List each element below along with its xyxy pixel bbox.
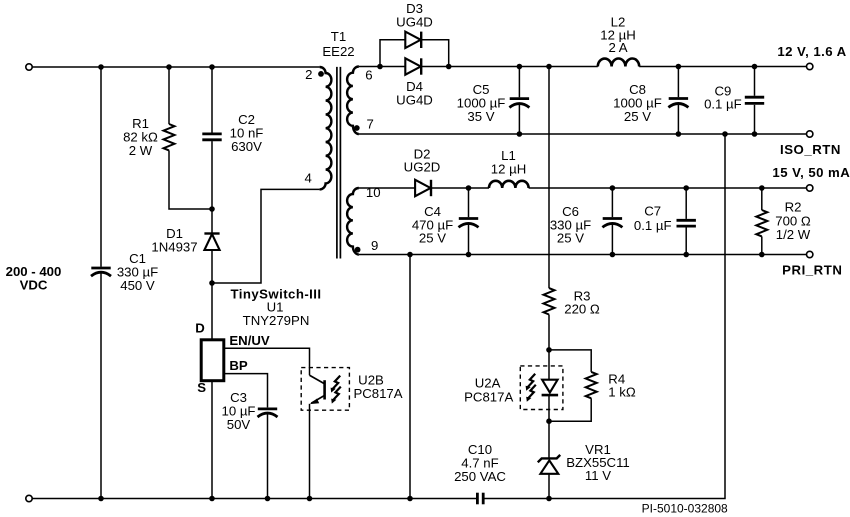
svg-text:EE22: EE22: [322, 44, 354, 59]
wire D2 to L1: [431, 187, 489, 189]
svg-text:250 VAC: 250 VAC: [454, 469, 506, 484]
label U1 pin D: [195, 321, 205, 336]
svg-text:1N4937: 1N4937: [151, 240, 197, 255]
label 15V output: [772, 165, 850, 180]
capacitor C8: [668, 99, 688, 108]
wire U1 BP to C3: [224, 374, 268, 408]
label pin 2: [305, 67, 312, 82]
label L1 value: [491, 148, 526, 177]
svg-text:ISO_RTN: ISO_RTN: [780, 142, 841, 157]
svg-text:R2: R2: [785, 200, 802, 215]
wire C4 top: [468, 188, 470, 217]
svg-text:25 V: 25 V: [419, 231, 446, 246]
svg-text:25 V: 25 V: [557, 231, 584, 246]
terminal 15V output: [807, 185, 813, 191]
svg-text:1 kΩ: 1 kΩ: [608, 385, 636, 400]
wire C5 bottom: [518, 104, 520, 134]
node junction C6 top: [610, 185, 616, 191]
svg-text:T1: T1: [331, 29, 346, 44]
svg-text:PC817A: PC817A: [464, 390, 513, 405]
capacitor C4: [459, 219, 479, 228]
wire D1 anode down to U1 drain node: [211, 251, 213, 340]
wire PRI_RTN rail: [359, 254, 807, 256]
node junction LED/R4/VR1: [546, 418, 552, 424]
capacitor C9: [745, 97, 764, 103]
capacitor C2: [202, 134, 221, 140]
wire R4 branch: [549, 350, 591, 372]
node junction pin9 drop: [407, 252, 413, 258]
svg-text:PI-5010-032808: PI-5010-032808: [642, 502, 728, 516]
wire ISO_RTN rail: [359, 133, 807, 135]
svg-text:15 V, 50 mA: 15 V, 50 mA: [772, 165, 850, 180]
node junction C5 bottom: [517, 131, 523, 137]
label ISO_RTN: [780, 142, 841, 157]
LED U2A: [542, 380, 559, 395]
svg-text:12 V, 1.6 A: 12 V, 1.6 A: [777, 44, 846, 59]
label D1 value: [151, 226, 197, 255]
transformer secondary winding (pins 6-7): [347, 67, 359, 135]
label pin 10: [366, 185, 381, 200]
transformer pin 7 phase dot: [354, 125, 360, 131]
svg-text:C7: C7: [644, 204, 661, 219]
svg-text:2 A: 2 A: [608, 40, 627, 55]
node junction C9 bottom: [752, 131, 758, 137]
transformer primary winding (pins 2-4): [320, 67, 332, 189]
transistor U2B emitter with arrow: [310, 396, 324, 405]
wire R1 bottom to clamp node: [169, 150, 212, 209]
zener diode VR1: [538, 455, 560, 474]
svg-text:35 V: 35 V: [467, 109, 494, 124]
node junction top rail at R1: [166, 64, 172, 70]
svg-text:0.1 µF: 0.1 µF: [634, 218, 672, 233]
node junction C8 top: [676, 64, 682, 70]
wire D1 cathode: [211, 209, 213, 234]
wire D3 branch up: [380, 40, 405, 67]
svg-text:UG4D: UG4D: [396, 14, 433, 29]
node junction bottom rail at C3: [265, 496, 271, 502]
label C1 value: [117, 251, 158, 293]
svg-text:PRI_RTN: PRI_RTN: [782, 262, 842, 277]
label pin 6: [365, 67, 372, 82]
label D4: [396, 79, 433, 107]
wire C7 top: [685, 188, 687, 219]
terminal ISO_RTN: [807, 131, 813, 137]
wire R2 bottom: [761, 236, 763, 254]
diode D3: [405, 32, 421, 48]
label C3 value: [222, 390, 256, 432]
wire C1 top: [100, 67, 102, 267]
label pin 9: [371, 238, 378, 253]
label VR1 value: [566, 442, 630, 483]
node junction bottom rail at pin9 drop: [407, 496, 413, 502]
wire C7 bottom: [685, 228, 687, 255]
svg-text:EN/UV: EN/UV: [229, 333, 270, 348]
node junction C4 top: [466, 185, 472, 191]
svg-text:D: D: [195, 321, 205, 336]
label T1: [322, 29, 354, 59]
wire C8 bottom: [677, 104, 679, 134]
wire L2 to 12V terminal: [639, 66, 806, 68]
wire C8 top: [677, 67, 679, 98]
diode D1: [204, 234, 219, 251]
wire bottom rail left of C10: [32, 498, 477, 500]
label L2 value: [600, 14, 635, 55]
wire pin6 to D4: [359, 66, 405, 68]
wire pin10 to D2: [359, 187, 415, 189]
node junction ISO drop: [722, 131, 728, 137]
svg-text:0.1 µF: 0.1 µF: [704, 97, 742, 112]
node junction R3/R4/LED: [546, 347, 552, 353]
resistor R1: [164, 124, 175, 150]
svg-text:TNY279PN: TNY279PN: [243, 313, 310, 328]
svg-text:2: 2: [305, 67, 312, 82]
wire U1 source to bottom rail: [211, 381, 213, 499]
label R1 value: [123, 116, 158, 158]
wire C4 bottom: [468, 224, 470, 255]
inductor L2: [598, 58, 639, 66]
capacitor C1: [91, 268, 111, 276]
wire VR1 cathode: [548, 421, 550, 458]
svg-text:450 V: 450 V: [120, 278, 155, 293]
label C9 value: [704, 83, 742, 111]
svg-text:2 W: 2 W: [129, 143, 153, 158]
label pin 7: [367, 116, 374, 131]
node junction bottom rail at C1: [98, 496, 104, 502]
svg-text:U2A: U2A: [475, 376, 501, 391]
wire C6 top: [611, 188, 613, 217]
node junction D3 rejoin: [446, 64, 452, 70]
node junction top rail at C2: [209, 64, 215, 70]
node junction C9 top: [752, 64, 758, 70]
wire C9 bottom: [754, 105, 756, 134]
node junction R2 bottom: [759, 252, 765, 258]
label PI-5010-032808: [642, 502, 728, 516]
node junction R2 top: [759, 185, 765, 191]
svg-text:S: S: [197, 380, 206, 395]
wire LED cathode to R4 node: [548, 395, 550, 421]
label U1 pin S: [197, 380, 206, 395]
label C4 value: [412, 204, 453, 246]
wire C1 bottom: [100, 272, 102, 498]
wire C2 bottom: [211, 141, 213, 209]
wire LED anode: [548, 350, 550, 380]
label 12V output: [777, 44, 846, 59]
wire R4 return: [549, 398, 591, 421]
wire C9 top: [754, 67, 756, 96]
capacitor C7: [677, 220, 696, 226]
node junction bottom rail at VR1: [546, 496, 552, 502]
node junction R1/C2/D1: [209, 206, 215, 212]
wire C3 bottom: [267, 413, 269, 498]
node junction C6 bottom: [610, 252, 616, 258]
wire pin9 drop to bottom rail: [409, 255, 411, 499]
node junction D3 branch: [377, 64, 383, 70]
label C8 value: [613, 82, 662, 124]
label U1 pin EN/UV: [229, 333, 270, 348]
svg-text:25 V: 25 V: [624, 109, 651, 124]
label R2 value: [775, 200, 811, 242]
resistor R4: [586, 372, 597, 398]
node junction C7 bottom: [683, 252, 689, 258]
label C6 value: [550, 204, 591, 246]
wire R3 to LED node: [548, 315, 550, 350]
node junction C4 bottom: [466, 252, 472, 258]
wire 12V rail: [421, 66, 598, 68]
wire drain node to transformer pin 4: [212, 189, 320, 283]
terminal PRI_RTN: [807, 251, 813, 257]
U2B dashed body: [301, 368, 349, 411]
wire U2B emitter to bottom rail: [309, 404, 311, 499]
svg-text:VDC: VDC: [20, 278, 48, 293]
node junction C5 top: [517, 64, 523, 70]
node junction bottom rail at U2B: [307, 496, 313, 502]
capacitor C5: [509, 99, 529, 108]
label D2: [404, 146, 441, 174]
U1 TinySwitch-III IC body: [201, 340, 224, 381]
node junction top rail at C1: [98, 64, 104, 70]
inductor L1: [489, 181, 529, 188]
node junction D1/U1/pin4 branch: [209, 280, 215, 286]
label U1 TinySwitch-III: [230, 287, 321, 329]
label U2A: [464, 376, 513, 405]
transformer core: [337, 67, 341, 259]
label 200-400 VDC: [6, 264, 62, 293]
svg-text:220 Ω: 220 Ω: [564, 302, 600, 317]
svg-text:PC817A: PC817A: [353, 386, 402, 401]
U2B light arrows: [331, 376, 341, 404]
label C7 value: [634, 204, 672, 234]
svg-text:4: 4: [305, 171, 312, 186]
U2A light arrows: [526, 374, 536, 402]
label U1 pin BP: [229, 358, 248, 373]
wire 12V to R3: [548, 67, 550, 289]
terminal 12V output: [807, 63, 813, 69]
svg-text:11 V: 11 V: [585, 468, 611, 483]
capacitor C3: [258, 409, 278, 417]
diode D4: [405, 58, 421, 74]
wire D3 to rejoin: [421, 40, 449, 67]
label R3 value: [564, 289, 600, 317]
wire C5 top: [518, 67, 520, 98]
wire L1 to 15V terminal: [529, 187, 807, 189]
diode D2: [415, 180, 431, 196]
svg-text:50V: 50V: [227, 417, 251, 432]
svg-text:UG2D: UG2D: [404, 160, 441, 175]
wire U1 EN/UV to optocoupler U2B collector: [224, 348, 310, 375]
transistor U2B collector: [310, 375, 325, 399]
svg-text:7: 7: [367, 116, 374, 131]
node junction C8 bottom: [676, 131, 682, 137]
node junction bottom rail at U1 S: [209, 496, 215, 502]
capacitor C6: [602, 219, 622, 228]
wire C6 bottom: [611, 224, 613, 255]
label U2B: [353, 372, 402, 400]
resistor R2: [756, 210, 767, 236]
node junction C7 top: [683, 185, 689, 191]
svg-text:630V: 630V: [231, 139, 262, 154]
wire R2 top: [761, 188, 763, 210]
wire R1 top: [168, 67, 170, 124]
transformer pin 9 phase dot: [355, 247, 361, 253]
transformer pin 2 phase dot: [318, 71, 324, 77]
label C2 value: [230, 112, 264, 154]
svg-text:BP: BP: [229, 358, 248, 373]
label pin 4: [305, 171, 312, 186]
wire C2 top: [211, 67, 213, 133]
input terminal - (200-400 VDC negative): [26, 495, 32, 501]
node junction R3 branch top: [546, 64, 552, 70]
U2A dashed body: [520, 366, 563, 410]
label R4 value: [608, 371, 636, 399]
svg-text:1/2 W: 1/2 W: [776, 227, 811, 242]
wire VR1 anode: [548, 474, 550, 499]
label C5 value: [457, 82, 506, 124]
capacitor C10: [477, 493, 483, 505]
wire top rail: [32, 66, 319, 68]
label D3: [396, 1, 433, 29]
input terminal + (200-400 VDC positive): [26, 64, 32, 70]
svg-text:UG4D: UG4D: [396, 92, 433, 107]
label PRI_RTN: [782, 262, 842, 277]
resistor R3: [544, 288, 555, 314]
svg-text:9: 9: [371, 238, 378, 253]
label C10 value: [454, 442, 506, 484]
transformer bias winding (pins 10-9): [347, 188, 359, 255]
svg-text:6: 6: [365, 67, 372, 82]
wire ISO_RTN to bottom right corner: [483, 134, 725, 499]
svg-text:12 µH: 12 µH: [491, 162, 526, 177]
